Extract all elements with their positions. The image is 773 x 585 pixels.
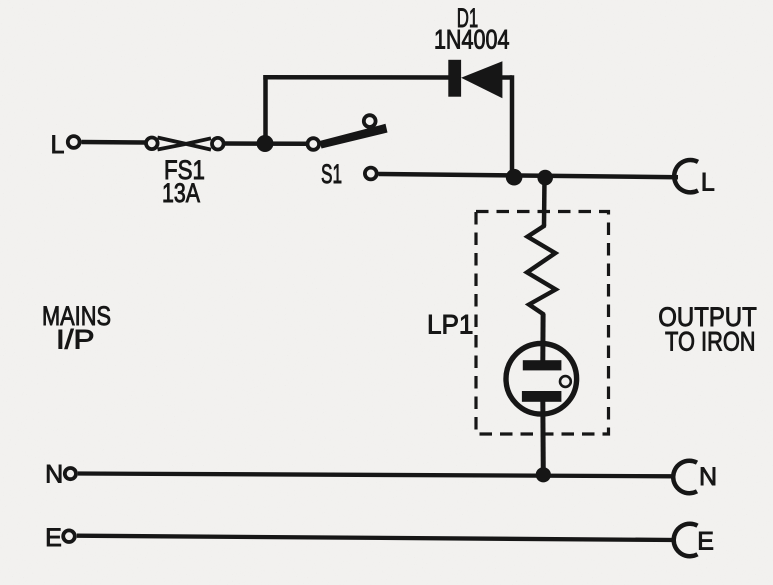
wire switch to L output [379,174,679,177]
label D1 [457,3,479,33]
svg-text:L: L [51,131,65,159]
label S1 [321,159,342,189]
lamp LP1 dashed enclosure [476,212,609,435]
wire N line [78,474,675,477]
diode D1 [448,60,502,98]
node junction fuse/diode [257,135,274,152]
resistor (LP1 internal ballast) [527,224,556,316]
svg-text:E: E [45,524,62,552]
svg-text:L: L [701,169,715,197]
label TO IRON [665,326,756,356]
wire to diode anode [263,75,450,80]
label FS1 [164,155,205,185]
wire neon bulb to N line [540,399,546,476]
label E (mains earth input) [45,524,62,552]
label N (mains neutral input) [45,461,63,489]
terminal N output [673,461,697,493]
label E output [697,528,714,556]
terminal L output [674,160,698,192]
svg-text:13A: 13A [162,178,200,208]
wire junction up to diode level [263,75,268,145]
svg-text:N: N [699,463,717,491]
label L (mains live input) [51,131,65,159]
terminal N input [65,468,76,479]
label OUTPUT [658,302,757,332]
node lamp branch junction [537,170,553,186]
label MAINS [42,301,111,331]
label L output [701,169,715,197]
svg-text:1N4004: 1N4004 [434,24,510,54]
wire fuse to switch [225,141,307,146]
wire resistor to neon bulb [540,314,545,362]
switch S1 [308,115,388,179]
node lamp on N line [536,467,551,482]
svg-text:N: N [45,461,63,489]
svg-text:E: E [697,528,714,556]
label 1N4004 [434,24,510,54]
wire E line [77,536,676,540]
wire L input to fuse [82,140,146,145]
terminal L input [68,136,80,148]
svg-text:S1: S1 [321,159,342,189]
neon bulb (LP1) [506,344,577,415]
wire corner down to junction [510,75,515,178]
wire junction down to resistor [542,178,547,226]
label N output [699,463,717,491]
label I/P [56,325,95,355]
wire diode cathode to corner [500,75,512,80]
svg-text:LP1: LP1 [427,309,474,339]
fuse FS1 [146,138,224,150]
node diode/output junction [506,169,523,186]
terminal E input [63,530,75,542]
label LP1 [427,309,474,339]
terminal E output [674,524,698,556]
svg-text:TO IRON: TO IRON [665,326,756,356]
svg-text:I/P: I/P [56,325,95,355]
label 13A [162,178,200,208]
